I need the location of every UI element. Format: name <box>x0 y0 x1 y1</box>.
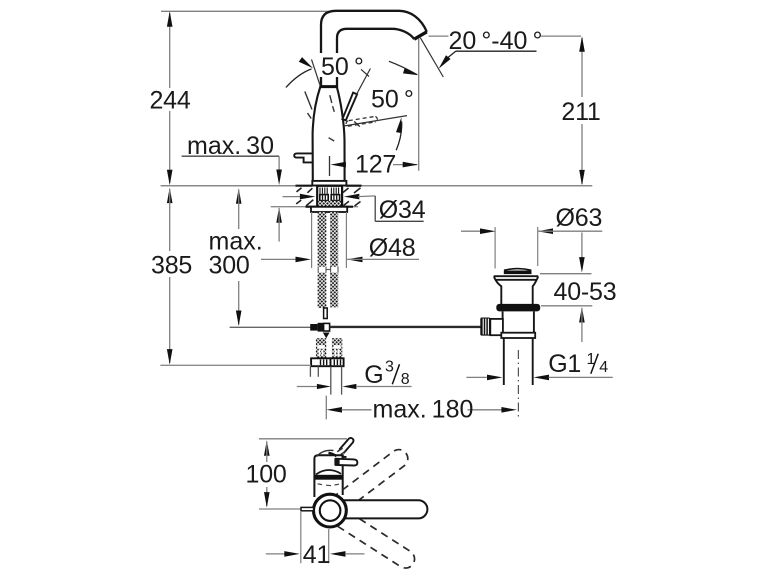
node diam63 extension lines <box>494 227 496 269</box>
svg-text:211: 211 <box>561 98 600 126</box>
wire top extension line for 244 dim <box>161 10 345 12</box>
svg-text:50 °: 50 ° <box>321 53 364 81</box>
wire spout tip extension line <box>418 39 420 171</box>
pipe left below nut <box>309 366 311 376</box>
node diam34 dimension arrows <box>283 196 302 198</box>
faucet spout outer profile <box>321 11 427 88</box>
hose right upper segment <box>330 212 338 267</box>
svg-text:Ø34: Ø34 <box>379 196 426 224</box>
svg-text:max. 180: max. 180 <box>373 395 474 423</box>
faucet body outline <box>313 87 345 182</box>
node max300 dimension arrows <box>236 188 242 204</box>
node lever angle cross tick <box>361 69 369 76</box>
node 385 dimension line with arrows <box>167 188 173 204</box>
node diam48 extension lines <box>311 212 313 268</box>
hose break joint lines <box>317 267 319 273</box>
wire hose end extension line <box>160 364 311 366</box>
node 100 dimension with arrows <box>264 440 270 456</box>
node 244 dimension line with arrows <box>169 13 171 88</box>
faucet mounting nut plate <box>311 207 347 212</box>
wire horizontal line spout tip to 211 <box>429 35 449 37</box>
hose left upper segment <box>318 212 327 267</box>
plan view cartridge inner circle <box>320 500 341 521</box>
plan view cartridge outer circle <box>314 494 347 527</box>
svg-text:41: 41 <box>303 541 330 569</box>
node max30 down arrow <box>278 156 280 181</box>
pop-up rod vertical link <box>324 308 328 319</box>
plan view spout tube cut <box>339 438 353 453</box>
node G3/8 dimension arrows <box>297 386 318 388</box>
faucet lever handle open position <box>342 93 357 121</box>
plan view shoulder arc <box>317 450 334 456</box>
pop-up rod clamp <box>310 324 317 331</box>
hose nut base right <box>331 358 344 366</box>
node lever closed dashed outline <box>346 116 377 126</box>
node diam34 leader box <box>374 196 376 221</box>
drain pop-up cap <box>504 269 531 271</box>
pop-up rod horizontal thin part <box>230 326 311 328</box>
drain gasket <box>496 304 540 312</box>
hose left lower segment <box>318 273 327 308</box>
svg-text:4: 4 <box>599 359 608 376</box>
pop-up rod horizontal main <box>330 326 481 328</box>
faucet hidden handle dash 1 <box>305 92 312 110</box>
svg-text:300: 300 <box>209 252 250 280</box>
plan view lever rotated down dashed <box>338 511 415 568</box>
pipe right below nut <box>330 366 332 394</box>
faucet threaded shank <box>317 186 342 207</box>
node 41 extension lines <box>300 512 302 563</box>
wire countertop underside line <box>271 206 359 208</box>
plan view side lever <box>336 459 358 466</box>
svg-text:G1: G1 <box>548 350 581 378</box>
plan view lever rotated up dashed <box>337 450 408 509</box>
drain tailpipe <box>503 338 505 385</box>
node 50deg swivel arc right with arrow <box>389 61 417 74</box>
plan view spout collar band <box>315 475 343 480</box>
hose nut right <box>332 338 342 358</box>
drain collar <box>501 333 535 338</box>
svg-text:244: 244 <box>149 86 190 114</box>
hose right lower segment <box>330 273 338 308</box>
node 127 centerline tick <box>329 156 331 176</box>
node max180 extension line <box>325 396 327 420</box>
drain body <box>502 311 504 332</box>
hose nut left <box>316 338 326 358</box>
faucet hidden handle dash 3 <box>330 95 332 103</box>
node 211 dimension line with arrows <box>581 38 583 97</box>
svg-text:385: 385 <box>151 252 192 280</box>
node 50deg lower arc with arrow <box>396 122 402 151</box>
node diam63 dimension arrows <box>461 230 481 232</box>
plan view lever horizontal <box>340 500 427 518</box>
plan view hidden dashes below collar <box>318 483 323 486</box>
faucet hidden handle dash 5 <box>354 122 360 127</box>
node max180 dimension with arrows <box>327 407 343 413</box>
hose nut base left <box>311 358 330 366</box>
node 41 dimension with arrows <box>266 553 285 555</box>
svg-text:100: 100 <box>246 460 287 488</box>
drain side port <box>490 319 503 335</box>
node 127 dimension with arrows <box>330 162 346 168</box>
plan view spout section arc <box>316 470 341 474</box>
faucet hidden handle dash 2 <box>308 113 312 119</box>
node 20-40deg leader with arrow <box>456 50 537 52</box>
faucet body top joint <box>320 85 338 88</box>
svg-text:127: 127 <box>355 151 396 179</box>
drain flange <box>494 276 538 304</box>
svg-text:40-53: 40-53 <box>554 278 617 306</box>
node 50deg swivel arc left with arrow <box>286 69 312 88</box>
plan view outlet stub <box>301 507 314 510</box>
svg-text:50 °: 50 ° <box>371 85 414 113</box>
node lever axis extension line <box>356 69 370 95</box>
node 100 bottom reference line <box>259 508 301 510</box>
drain knurled knob <box>480 318 490 336</box>
node diam48 dimension arrows <box>261 258 296 260</box>
faucet base plate <box>312 181 346 186</box>
svg-text:3: 3 <box>385 359 394 376</box>
svg-text:8: 8 <box>401 371 410 388</box>
faucet hidden handle dash 4 <box>329 138 335 141</box>
node 40-53 extension lines <box>540 273 592 275</box>
node max30 leader shelf <box>182 155 280 157</box>
faucet spout inner profile <box>337 29 414 88</box>
node spout angle extension diagonal <box>420 38 443 77</box>
faucet pop-up rod knob at rear <box>294 153 312 162</box>
svg-text:Ø63: Ø63 <box>556 204 603 232</box>
node 50deg lever reference line <box>345 116 407 126</box>
drain centerline <box>517 350 519 419</box>
wire countertop surface line <box>161 185 593 187</box>
countertop section hatching <box>297 188 302 192</box>
node 50deg upper label background <box>320 53 360 77</box>
node 50deg swivel reference line <box>312 59 321 87</box>
node 100 top reference line <box>259 438 347 440</box>
faucet spout outlet face <box>414 32 427 39</box>
node max30 up arrow <box>276 207 282 223</box>
plan view body outline <box>314 455 342 497</box>
svg-text:G: G <box>364 361 383 389</box>
node G1 1/4 dimension arrows <box>466 376 486 378</box>
svg-text:Ø48: Ø48 <box>369 234 416 262</box>
node 40-53 arrows <box>581 233 583 259</box>
plan view spout break marks <box>337 448 342 452</box>
